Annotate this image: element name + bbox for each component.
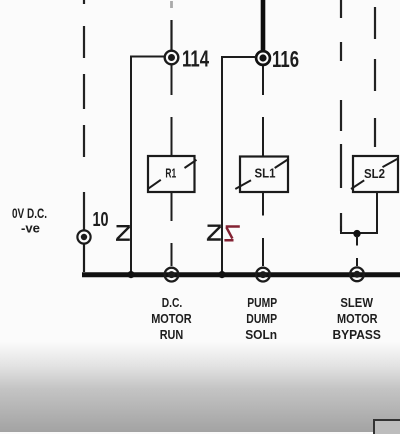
svg-text:RUN: RUN	[160, 327, 184, 342]
wire junction to slew terminal (dashed)	[356, 236, 358, 266]
wire 116 to SL1 (dashed)	[262, 66, 264, 157]
svg-text:116: 116	[272, 46, 299, 72]
feed wire above terminal 114	[170, 20, 172, 50]
wire 114 to R1 (dashed)	[171, 65, 173, 156]
svg-text:114: 114	[182, 46, 209, 72]
faint top dash above 114	[170, 1, 173, 8]
wire SL2 bottom loop to junction	[341, 192, 377, 233]
svg-text:R1: R1	[165, 165, 176, 180]
label 0V D.C. -ve	[12, 205, 47, 236]
terminal 116	[256, 51, 270, 65]
red mirrored-Z annotation	[224, 227, 239, 241]
svg-text:-ve: -ve	[21, 221, 40, 236]
solenoid SL2	[351, 156, 398, 192]
junction dot at bus x=131	[127, 271, 134, 278]
solenoid SL1	[235, 157, 288, 193]
svg-text:PUMP: PUMP	[247, 295, 277, 310]
svg-text:BYPASS: BYPASS	[333, 327, 382, 342]
wire terminal 10 to 0V bus	[83, 244, 85, 272]
svg-text:SL1: SL1	[255, 166, 276, 181]
svg-text:SL2: SL2	[364, 166, 385, 181]
terminal 114	[165, 51, 179, 65]
dashed boundary line left (x=84)	[83, 0, 85, 230]
label D.C. MOTOR RUN	[151, 295, 192, 342]
junction dot slew branch	[353, 230, 360, 237]
video overlay box bottom right	[373, 419, 400, 434]
svg-text:MOTOR: MOTOR	[337, 311, 378, 326]
black Z marker on wire 10 branch	[116, 226, 130, 240]
0V bus thick horizontal	[82, 272, 400, 277]
svg-text:D.C.: D.C.	[162, 295, 183, 310]
junction dot at bus x=222	[218, 271, 225, 278]
wire SL1 to bus (dashed)	[262, 192, 264, 266]
terminal 10	[77, 230, 90, 243]
svg-text:10: 10	[93, 209, 109, 231]
dashed feed above SL2 (x=375)	[374, 7, 376, 147]
relay coil R1	[148, 156, 197, 192]
wire R1 to bus (dashed)	[171, 192, 173, 266]
svg-text:SOLn: SOLn	[245, 327, 277, 342]
terminal D.C. motor run	[165, 268, 179, 282]
label SLEW MOTOR BYPASS	[333, 295, 382, 342]
wire from terminal 114 to bus	[131, 57, 164, 274]
label PUMP DUMP SOLn	[245, 295, 277, 342]
svg-text:0V D.C.: 0V D.C.	[12, 205, 47, 221]
black Z marker on wire 116 branch	[207, 226, 221, 240]
dashed boundary line (x=341)	[340, 0, 342, 231]
svg-text:MOTOR: MOTOR	[151, 311, 192, 326]
terminal pump dump soln	[256, 268, 270, 282]
wire from terminal 116 to bus	[222, 57, 256, 273]
svg-text:DUMP: DUMP	[246, 311, 277, 326]
svg-text:SLEW: SLEW	[340, 295, 373, 310]
highlighted thick feed wire to 116	[261, 0, 266, 50]
terminal slew motor bypass	[350, 267, 364, 281]
